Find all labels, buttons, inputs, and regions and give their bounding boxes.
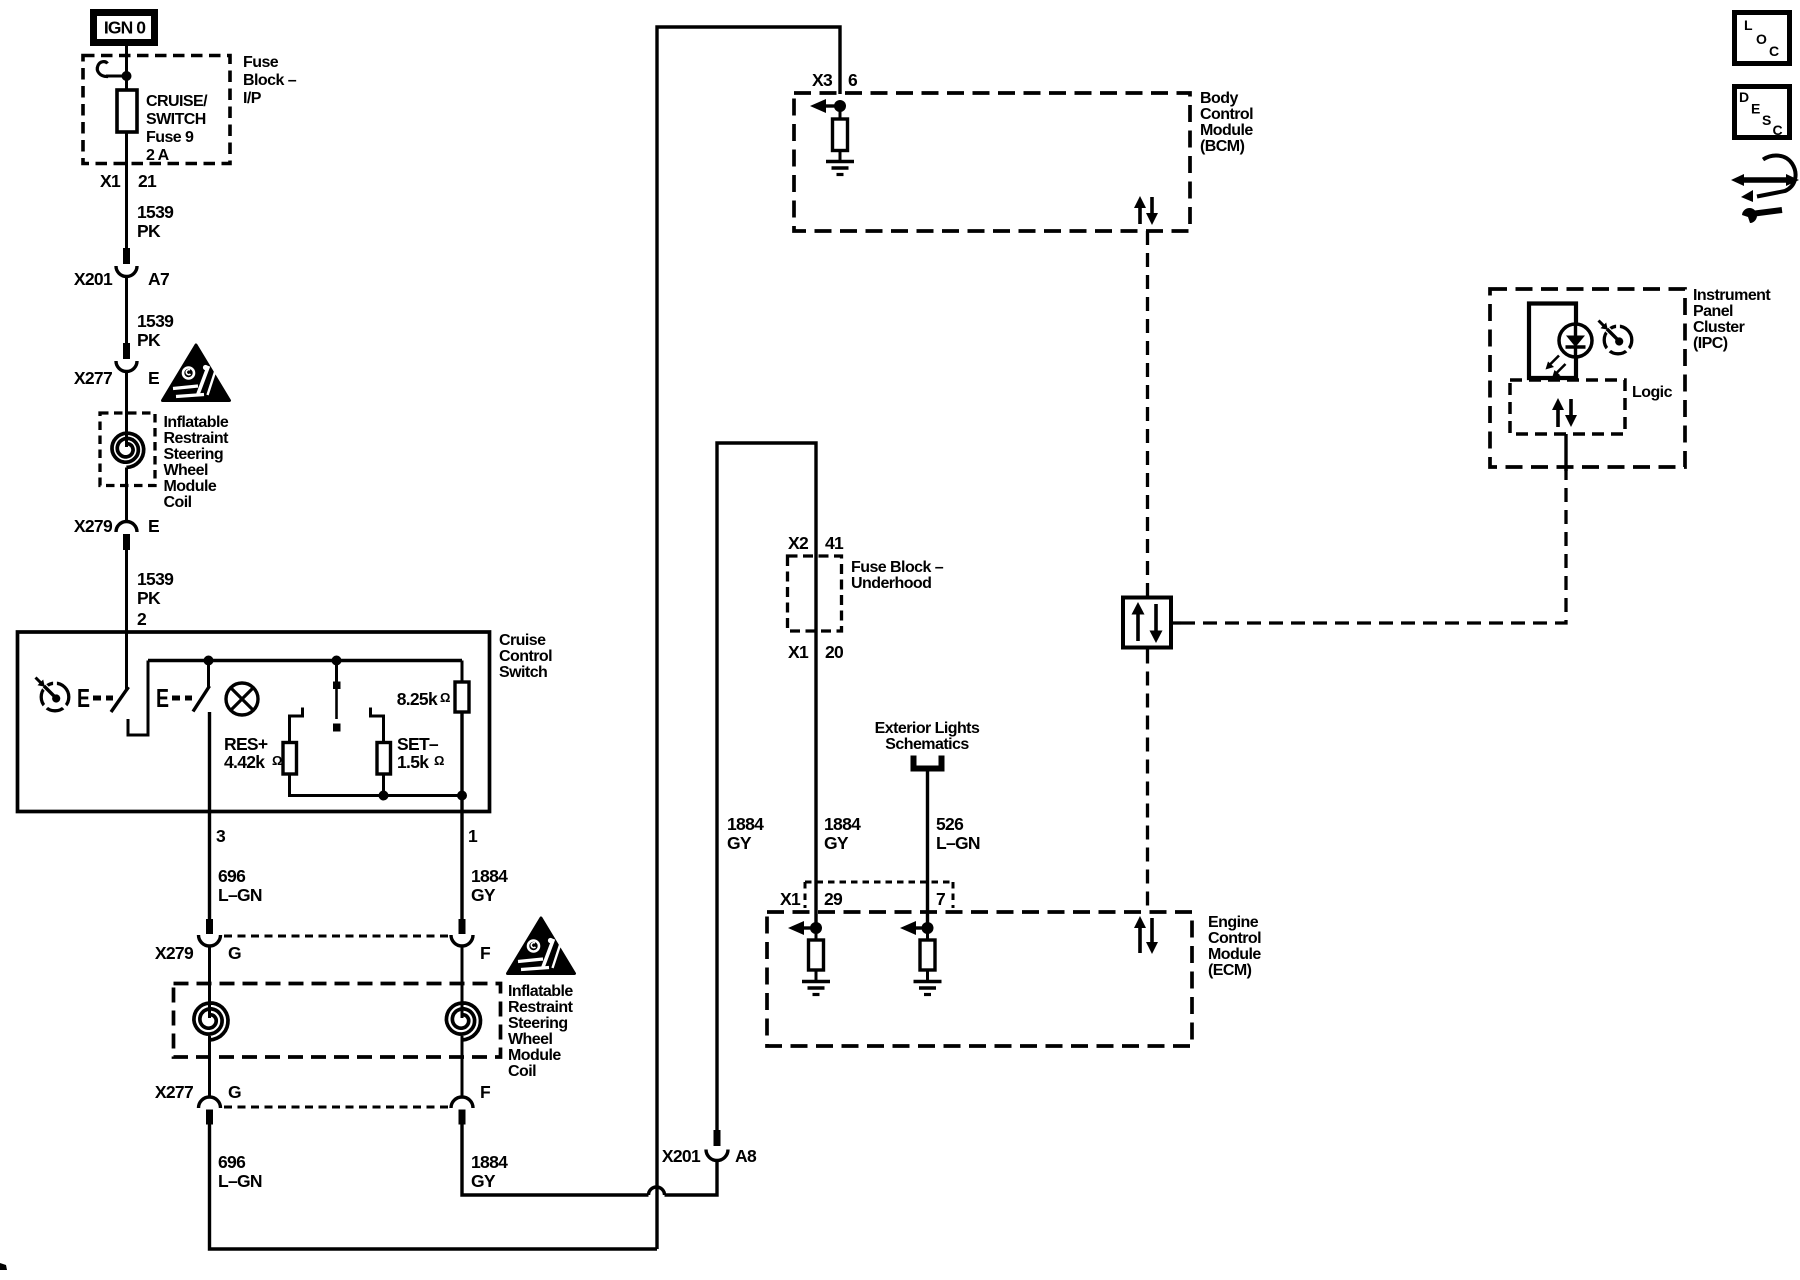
- svg-text:IGN 0: IGN 0: [104, 18, 146, 38]
- 8.25k bottom lead / pin1 wire: [460, 712, 463, 812]
- switch 2 (set/resume) E dashed: [156, 683, 192, 712]
- cruise indicator block: [1529, 304, 1576, 379]
- svg-text:Module: Module: [1200, 122, 1253, 139]
- junction dot BCM pin 6: [834, 100, 846, 112]
- ECM pin29 input arrow: [788, 921, 816, 935]
- svg-text:Cluster: Cluster: [1693, 319, 1745, 336]
- svg-text:Coil: Coil: [508, 1063, 536, 1080]
- svg-text:G: G: [228, 943, 241, 963]
- svg-text:Exterior Lights: Exterior Lights: [875, 720, 980, 737]
- resistor SET- 1.5k: [377, 743, 391, 775]
- svg-text:F: F: [480, 1082, 491, 1102]
- svg-text:Coil: Coil: [164, 494, 192, 511]
- switch 1 blade: [111, 687, 129, 712]
- svg-text:Cruise: Cruise: [499, 632, 546, 649]
- logic arrows up/down: [1552, 398, 1577, 427]
- svg-text:G: G: [228, 1082, 241, 1102]
- inner bus wire: [148, 659, 462, 662]
- wire underhood fuse block to ECM: [814, 631, 817, 928]
- svg-text:1884: 1884: [471, 866, 508, 886]
- svg-text:1: 1: [468, 826, 478, 846]
- wire X201-A8 up and over to underhood fuse block: [717, 443, 816, 1130]
- connector labels X201 A7: [74, 269, 169, 289]
- airbag warning triangle (lower): [508, 918, 575, 974]
- wires out of dual coil box: [208, 1036, 211, 1098]
- SET- label: [397, 734, 444, 772]
- ECM dashed box: [767, 912, 1192, 1046]
- svg-text:PK: PK: [137, 330, 161, 350]
- connector labels X201 A8: [662, 1146, 757, 1166]
- connector X201 A7 (pin + cup): [116, 248, 137, 277]
- svg-text:X201: X201: [74, 269, 113, 289]
- connector X201 A8 (pin + cup): [706, 1130, 728, 1161]
- svg-text:L: L: [1744, 17, 1753, 33]
- svg-text:X279: X279: [74, 516, 113, 536]
- junction dot at fuse tap: [122, 71, 132, 81]
- wire label 696 L-GN: [218, 866, 262, 905]
- svg-text:Switch: Switch: [499, 664, 547, 681]
- svg-text:Panel: Panel: [1693, 303, 1733, 320]
- svg-text:1539: 1539: [137, 569, 174, 589]
- svg-text:A8: A8: [735, 1146, 757, 1166]
- svg-text:A7: A7: [148, 269, 169, 289]
- svg-text:Inflatable: Inflatable: [164, 414, 229, 431]
- connector X279 E (cup over pin): [116, 522, 137, 551]
- svg-text:6: 6: [848, 70, 858, 90]
- ECM pin7 input arrow: [900, 921, 928, 935]
- svg-text:(BCM): (BCM): [1200, 138, 1245, 155]
- IPC label: [1693, 287, 1771, 352]
- IPC dashed box: [1490, 289, 1685, 467]
- svg-text:1539: 1539: [137, 202, 174, 222]
- svg-text:Logic: Logic: [1632, 384, 1673, 401]
- 8.25k label: [397, 689, 451, 709]
- svg-text:2: 2: [137, 609, 147, 629]
- junction dot ECM pin7: [922, 922, 934, 934]
- serial data nub junction right: [1173, 621, 1181, 624]
- svg-text:20: 20: [825, 642, 844, 662]
- fuse label: [146, 93, 208, 164]
- svg-text:GY: GY: [727, 833, 752, 853]
- fuse CRUISE/SWITCH Fuse 9 2A: [117, 90, 137, 132]
- junction arrows up/down: [1132, 602, 1163, 643]
- bus tap hook inside fuse block: [97, 62, 126, 77]
- svg-text:X1: X1: [780, 889, 801, 909]
- svg-text:Instrument: Instrument: [1693, 287, 1771, 304]
- ECM pin29 pull resistor: [809, 928, 824, 981]
- svg-text:Module: Module: [1208, 946, 1261, 963]
- coil label (lower): [508, 983, 574, 1080]
- connector X277 F (cup over pin): [451, 1097, 473, 1125]
- svg-text:29: 29: [824, 889, 843, 909]
- BCM serial data arrows up/down: [1134, 196, 1158, 225]
- Logic dashed box: [1510, 380, 1625, 434]
- svg-text:L–GN: L–GN: [218, 885, 262, 905]
- connector X279 F (pin + cup): [451, 919, 473, 946]
- svg-text:Wheel: Wheel: [508, 1031, 552, 1048]
- ECM serial data arrows up/down: [1134, 916, 1158, 954]
- wire label 1884 GY (riser to ECM): [824, 814, 861, 853]
- svg-text:21: 21: [138, 171, 157, 191]
- RES+ contact hook: [290, 708, 303, 743]
- svg-text:Body: Body: [1200, 90, 1238, 107]
- cruise control switch label: [499, 632, 552, 681]
- svg-text:Module: Module: [164, 478, 217, 495]
- ECM connector dotted bracket: [805, 882, 953, 908]
- switch 2 output wire to pin 3: [208, 712, 211, 812]
- junction dot bus/selector: [332, 656, 342, 666]
- speedometer (cruise) icon: [36, 678, 69, 711]
- wire coil to X279: [125, 468, 128, 522]
- svg-text:Fuse 9: Fuse 9: [146, 129, 194, 146]
- serial data dashed line junction to IPC: [1181, 468, 1566, 623]
- svg-text:F: F: [480, 943, 491, 963]
- svg-text:Schematics: Schematics: [885, 736, 969, 753]
- wires into dual coil box: [208, 946, 211, 1019]
- resistor RES+ 4.42k: [283, 743, 297, 775]
- svg-text:8.25k: 8.25k: [397, 689, 438, 709]
- wire 696 L-GN return run to BCM: [210, 1124, 658, 1249]
- svg-text:4.42k: 4.42k: [224, 752, 265, 772]
- svg-text:PK: PK: [137, 221, 161, 241]
- svg-text:L–GN: L–GN: [936, 833, 980, 853]
- Exterior Lights Schematics label: [875, 720, 980, 753]
- svg-text:E: E: [77, 683, 90, 712]
- pin labels X1 | 20: [788, 642, 844, 662]
- wire label 1539 PK: [137, 202, 174, 241]
- wire IGN0 to fuse: [125, 46, 128, 90]
- svg-text:GY: GY: [471, 885, 496, 905]
- pin labels X2 | 41: [788, 533, 844, 553]
- Fuse Block - Underhood dashed box: [788, 556, 842, 631]
- BCM pull resistor: [833, 106, 848, 161]
- svg-text:GY: GY: [471, 1171, 496, 1191]
- pin labels X1 | 29 | 7: [780, 889, 945, 909]
- svg-text:X201: X201: [662, 1146, 701, 1166]
- svg-text:Underhood: Underhood: [851, 575, 931, 592]
- connector X277 E (pin + cup): [116, 343, 137, 372]
- svg-text:1884: 1884: [471, 1152, 508, 1172]
- Fuse Block - I/P label: [243, 54, 297, 107]
- svg-text:E: E: [1751, 101, 1760, 117]
- svg-text:1539: 1539: [137, 311, 174, 331]
- BCM label: [1200, 90, 1253, 155]
- svg-text:D: D: [1739, 89, 1749, 105]
- svg-text:526: 526: [936, 814, 964, 834]
- SET- bottom lead: [382, 774, 385, 796]
- IPC serial wire solid stub: [1564, 434, 1567, 471]
- resistor 8.25k: [455, 661, 469, 713]
- svg-text:SET–: SET–: [397, 734, 439, 754]
- svg-text:X3: X3: [812, 70, 833, 90]
- svg-text:S: S: [1762, 112, 1771, 128]
- svg-text:(IPC): (IPC): [1693, 335, 1728, 352]
- svg-text:Restraint: Restraint: [508, 999, 574, 1016]
- svg-text:CRUISE/: CRUISE/: [146, 93, 208, 110]
- DESC hyperlink box: [1735, 87, 1790, 139]
- cruise control switch box: [18, 632, 490, 812]
- wire X277 to coil box: [125, 372, 128, 448]
- svg-text:C: C: [1773, 122, 1783, 138]
- bottom bus of resistor network: [290, 774, 463, 796]
- selector plunger contact: [333, 661, 341, 732]
- svg-text:Ω: Ω: [434, 753, 444, 768]
- SET- contact hook: [371, 708, 384, 743]
- svg-text:X1: X1: [788, 642, 809, 662]
- svg-text:41: 41: [825, 533, 844, 553]
- svg-text:Ω: Ω: [440, 690, 450, 705]
- connector labels X279 G F: [155, 943, 491, 963]
- wire hop to corner and up: [665, 1161, 718, 1195]
- svg-text:(ECM): (ECM): [1208, 962, 1252, 979]
- wire label 1884 GY (lower): [471, 1152, 508, 1191]
- clockspring coil (upper): [112, 433, 144, 467]
- svg-text:Module: Module: [508, 1047, 561, 1064]
- svg-text:L–GN: L–GN: [218, 1171, 262, 1191]
- svg-text:Steering: Steering: [508, 1015, 568, 1032]
- Inflatable Restraint Steering Wheel Module Coil dashed box (dual): [174, 984, 501, 1058]
- wire 1884 GY run to X201-A8 with hop: [462, 1124, 649, 1195]
- svg-text:PK: PK: [137, 588, 161, 608]
- svg-text:Engine: Engine: [1208, 914, 1259, 931]
- svg-text:Block –: Block –: [243, 72, 297, 89]
- wire label 1884 GY (riser at X201-A8): [727, 814, 764, 853]
- svg-text:Restraint: Restraint: [164, 430, 230, 447]
- svg-text:Inflatable: Inflatable: [508, 983, 573, 1000]
- serial data junction box: [1123, 598, 1171, 648]
- connector labels X277 E: [74, 368, 159, 388]
- ground (ECM pin29): [802, 982, 830, 995]
- svg-text:1.5k: 1.5k: [397, 752, 429, 772]
- speedometer (IPC) icon: [1599, 321, 1632, 354]
- svg-text:1884: 1884: [824, 814, 861, 834]
- wire pin2 into box: [125, 632, 128, 689]
- svg-text:3: 3: [216, 826, 226, 846]
- junction dot bottom bus right: [457, 791, 467, 801]
- svg-text:Fuse: Fuse: [243, 54, 279, 71]
- wire label 526 L-GN: [936, 814, 980, 853]
- coil label (upper): [164, 414, 230, 511]
- svg-text:696: 696: [218, 866, 246, 886]
- airbag warning triangle (upper): [163, 345, 230, 401]
- junction dot bus/switch2: [204, 656, 214, 666]
- BCM dashed box: [794, 93, 1190, 231]
- wire label 696 L-GN (lower): [218, 1152, 262, 1191]
- connector labels X277 G F: [155, 1082, 491, 1102]
- connector X277 G (cup over pin): [199, 1097, 221, 1125]
- clockspring coil (right, 1884 circuit): [446, 1003, 480, 1040]
- svg-text:1884: 1884: [727, 814, 764, 834]
- Fuse Block - I/P dashed box: [83, 56, 230, 164]
- off-page reference bracket: [914, 756, 942, 769]
- wire through underhood fuse block: [814, 556, 817, 631]
- indicator LED: [1546, 324, 1593, 378]
- switch 2 top stub: [207, 661, 210, 689]
- svg-text:X277: X277: [74, 368, 112, 388]
- wire pin3 down to X279-G: [208, 812, 211, 921]
- wire fuse to connector X201: [125, 132, 128, 249]
- svg-text:C: C: [1769, 43, 1779, 59]
- svg-text:X279: X279: [155, 943, 194, 963]
- dotted connector-pair line X279: [224, 935, 449, 938]
- connector labels X279 E: [74, 516, 159, 536]
- svg-text:X277: X277: [155, 1082, 193, 1102]
- svg-text:Ω: Ω: [272, 753, 282, 768]
- clockspring coil (left, 696 circuit): [194, 1003, 228, 1040]
- svg-text:Fuse Block –: Fuse Block –: [851, 559, 944, 576]
- dotted connector-pair line X277: [224, 1106, 449, 1109]
- connector X279 G (pin + cup): [199, 919, 221, 946]
- svg-text:Control: Control: [499, 648, 552, 665]
- svg-text:7: 7: [936, 889, 945, 909]
- RES+ label: [224, 734, 282, 772]
- ink blob artifact bottom-left: [0, 1263, 7, 1270]
- node IGN 0 power feed box: [94, 13, 155, 43]
- serial data dashed line BCM to junction: [1146, 231, 1149, 596]
- wire label 1884 GY: [471, 866, 508, 905]
- junction dot SET bottom: [379, 791, 389, 801]
- wire 526 L-GN to ECM: [926, 771, 929, 928]
- svg-text:E: E: [148, 368, 159, 388]
- LOC hyperlink box: [1735, 13, 1790, 64]
- illumination lamp: [226, 683, 258, 715]
- svg-text:SWITCH: SWITCH: [146, 111, 206, 128]
- svg-text:GY: GY: [824, 833, 849, 853]
- ECM label: [1208, 914, 1261, 979]
- svg-text:Wheel: Wheel: [164, 462, 208, 479]
- svg-text:Control: Control: [1200, 106, 1253, 123]
- ground (ECM pin7): [914, 982, 942, 995]
- svg-text:X1: X1: [100, 171, 121, 191]
- tools/navigation icon: [1731, 156, 1799, 223]
- serial data dashed line junction to ECM: [1146, 650, 1149, 913]
- ECM pin7 pull resistor: [920, 928, 935, 981]
- wire pin1 down to X279-F: [460, 812, 463, 921]
- switch 1 (on/off) E dashed: [77, 683, 113, 712]
- wire to X277, label 1539 PK: [125, 277, 128, 345]
- svg-text:2 A: 2 A: [146, 147, 170, 164]
- ground (BCM internal): [826, 162, 854, 175]
- svg-text:I/P: I/P: [243, 90, 262, 107]
- switch 1 output contact U-route to bus: [128, 661, 148, 736]
- svg-text:696: 696: [218, 1152, 246, 1172]
- junction dot ECM pin29: [810, 922, 822, 934]
- svg-text:O: O: [1756, 31, 1767, 47]
- 696 vertical continues above hop: [657, 27, 840, 1249]
- svg-text:X2: X2: [788, 533, 809, 553]
- Inflatable Restraint Steering Wheel Module Coil dashed box (single): [100, 413, 155, 486]
- svg-text:E: E: [156, 683, 169, 712]
- wire X279 to cruise switch, label 1539 PK: [125, 550, 128, 632]
- pin labels X3 | 6: [812, 70, 858, 90]
- pin labels X1 | 21: [100, 171, 157, 191]
- svg-text:RES+: RES+: [224, 734, 268, 754]
- BCM input arrow: [810, 99, 840, 113]
- svg-text:Steering: Steering: [164, 446, 224, 463]
- svg-text:Control: Control: [1208, 930, 1261, 947]
- switch 2 blade: [193, 686, 210, 712]
- svg-text:E: E: [148, 516, 159, 536]
- Fuse Block - Underhood label: [851, 559, 944, 592]
- wire hop over 696 wire: [649, 1187, 665, 1195]
